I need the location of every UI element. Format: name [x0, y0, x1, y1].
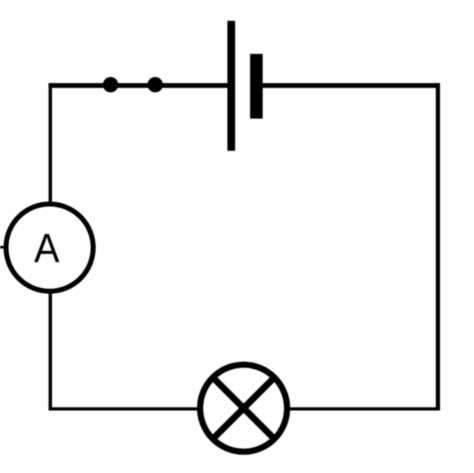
wire: right vertical (top-right to bottom-right corner)	[436, 83, 440, 410]
lamp L1 circle	[200, 365, 287, 452]
battery B1 short thick plate (negative)	[250, 54, 263, 119]
wire: bottom, right segment from lamp to bottom-right corner	[289, 407, 441, 410]
battery B1 long plate (positive)	[227, 21, 235, 151]
wire: bottom, left segment from bottom-left corner to lamp	[49, 407, 199, 410]
wire: top, left segment from top-left corner to battery long plate	[49, 83, 228, 88]
wire: left vertical upper (corner to ammeter top)	[49, 83, 52, 204]
ammeter A1 circle	[6, 204, 93, 291]
switch dot 1	[103, 77, 118, 92]
ammeter A1 label "A" (Liberation Sans glyph as path)	[34, 234, 59, 262]
wire: top, right segment from battery short plate to top-right corner	[262, 83, 440, 88]
wire stub at left image edge into ammeter	[0, 246, 6, 249]
lamp L1 cross stroke 2	[214, 379, 273, 438]
wire: left vertical lower (ammeter bottom to bottom-left corner)	[49, 293, 52, 411]
lamp L1 cross stroke 1	[214, 379, 273, 438]
switch dot 2	[148, 77, 163, 92]
